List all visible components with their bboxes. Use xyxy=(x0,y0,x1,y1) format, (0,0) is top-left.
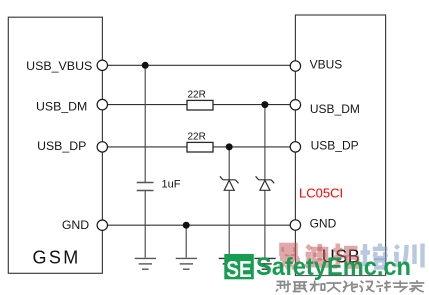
svg-text:GND: GND xyxy=(310,217,337,231)
svg-text:USB_DM: USB_DM xyxy=(36,100,87,114)
svg-text:VBUS: VBUS xyxy=(310,58,343,72)
svg-text:22R: 22R xyxy=(188,132,206,143)
svg-text:22R: 22R xyxy=(188,90,206,101)
svg-text:USB_DM: USB_DM xyxy=(310,102,360,116)
svg-text:GSM: GSM xyxy=(33,247,81,267)
svg-text:USB_DP: USB_DP xyxy=(311,139,359,153)
svg-text:SafetyEmc.cn: SafetyEmc.cn xyxy=(256,253,411,281)
svg-text:LC05CI: LC05CI xyxy=(299,186,343,201)
svg-text:1uF: 1uF xyxy=(162,178,181,190)
svg-text:USB_DP: USB_DP xyxy=(37,139,86,153)
svg-text:USB_VBUS: USB_VBUS xyxy=(26,59,92,73)
svg-text:GND: GND xyxy=(62,218,89,232)
svg-text:SE: SE xyxy=(226,256,252,282)
